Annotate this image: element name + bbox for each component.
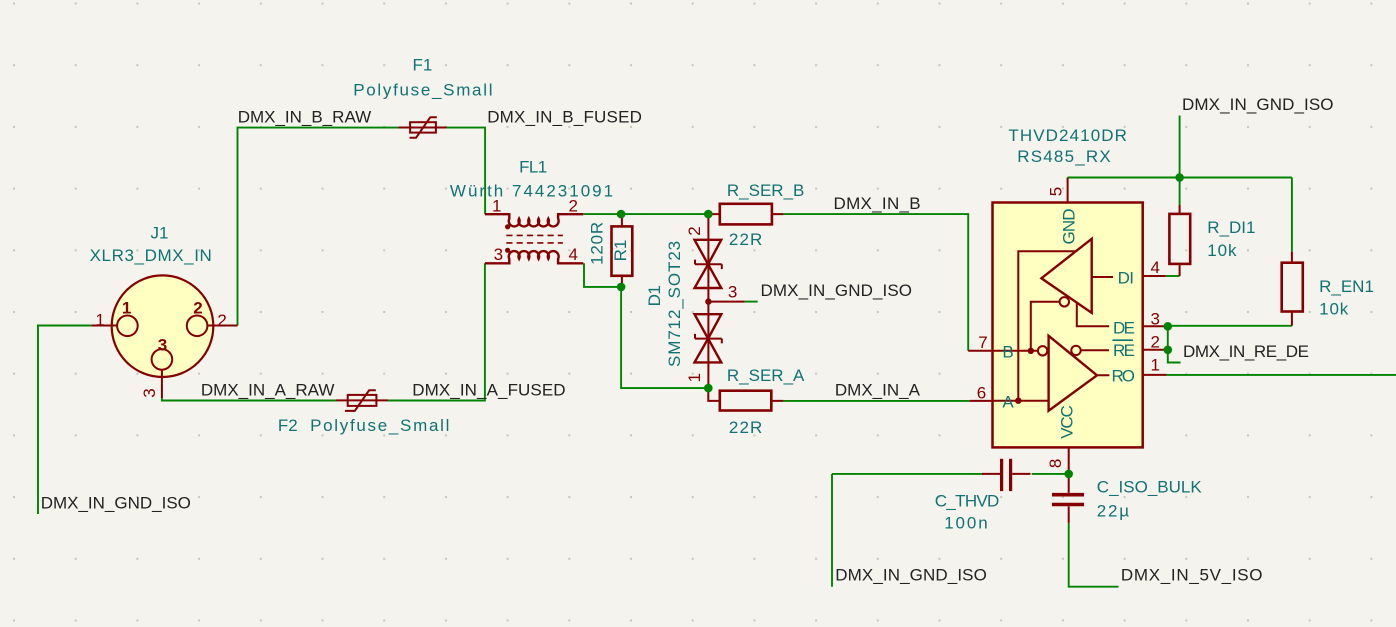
svg-text:5: 5 — [1046, 187, 1065, 196]
svg-text:10k: 10k — [1319, 300, 1349, 319]
svg-text:4: 4 — [569, 245, 578, 264]
svg-text:1: 1 — [95, 311, 104, 330]
IC U1 THVD2410DR RS485 transceiver — [993, 203, 1143, 448]
svg-text:2: 2 — [1151, 332, 1160, 351]
wire riser to DMX_IN_GND_ISO top label — [1179, 116, 1181, 178]
fuse F2 Polyfuse_Small — [336, 390, 388, 411]
svg-text:DMX_IN_GND_ISO: DMX_IN_GND_ISO — [1182, 95, 1334, 114]
svg-text:F1: F1 — [412, 56, 432, 75]
U1 pin 3 stub — [1143, 325, 1168, 327]
junction at R1 bottom — [617, 283, 626, 292]
wire junction to R_DI1 top — [1179, 178, 1181, 206]
resistor R_SER_B — [708, 204, 784, 225]
svg-text:100n: 100n — [944, 514, 989, 533]
svg-text:3: 3 — [140, 388, 159, 397]
svg-text:R1: R1 — [611, 240, 630, 262]
svg-text:B: B — [1002, 342, 1013, 361]
svg-text:F2: F2 — [278, 416, 298, 435]
wire D1 tap stub to DMX_IN_GND_ISO label — [745, 301, 758, 303]
svg-text:2: 2 — [193, 299, 202, 318]
svg-text:R_DI1: R_DI1 — [1207, 218, 1255, 237]
TVS diode D1 SM712_SOT23 — [695, 214, 745, 388]
junction RE pin — [1164, 346, 1173, 355]
svg-text:2: 2 — [217, 311, 226, 330]
wire rail to R_EN1 top — [1291, 178, 1293, 252]
svg-text:FL1: FL1 — [519, 158, 547, 177]
wire DMX_IN_B_RAW (J1 pin2 up and to fuse F1) — [238, 128, 400, 326]
U1 pin 7 stub — [968, 350, 992, 352]
svg-text:R_SER_A: R_SER_A — [727, 366, 805, 385]
svg-text:C_ISO_BULK: C_ISO_BULK — [1097, 478, 1203, 497]
junction GND rail / riser — [1175, 173, 1184, 182]
svg-text:DMX_IN_RE_DE: DMX_IN_RE_DE — [1183, 342, 1309, 361]
svg-text:GND: GND — [1059, 209, 1078, 245]
capacitor C_ISO_BULK — [1052, 474, 1084, 523]
wire net DMX_IN_GND_ISO left (J1 pin1 to label) — [38, 326, 91, 515]
svg-text:8: 8 — [1046, 459, 1065, 468]
svg-text:A: A — [1002, 392, 1014, 411]
capacitor C_THVD — [982, 459, 1031, 491]
svg-text:DMX_IN_A: DMX_IN_A — [835, 381, 921, 400]
svg-text:22µ: 22µ — [1097, 502, 1131, 521]
svg-text:3: 3 — [158, 335, 167, 354]
svg-text:3: 3 — [728, 282, 737, 301]
svg-text:10k: 10k — [1207, 241, 1237, 260]
common-mode choke FL1 — [485, 214, 583, 263]
wire DMX_IN_A (R_SER_A to U1 pin6 A) — [783, 400, 969, 402]
svg-text:3: 3 — [1151, 309, 1160, 328]
connector J1 XLR3_DMX_IN — [91, 275, 237, 398]
resistor R_DI1 — [1169, 205, 1190, 276]
U1 pin 4 stub — [1143, 275, 1166, 277]
svg-text:1: 1 — [122, 299, 131, 318]
wire DMX_IN_A_FUSED (F2 to FL1 pin3) — [388, 263, 485, 400]
svg-text:DMX_IN_5V_ISO: DMX_IN_5V_ISO — [1121, 565, 1263, 584]
U1 pin 2 stub — [1143, 349, 1168, 351]
svg-text:1: 1 — [1151, 355, 1160, 374]
junction at D1 bottom / R_SER_A — [704, 384, 713, 393]
svg-text:VCC: VCC — [1057, 405, 1076, 438]
fuse F1 Polyfuse_Small — [399, 117, 447, 138]
wire DMX_IN_RO from U1 pin1 to right edge — [1167, 374, 1396, 376]
resistor R_EN1 — [1282, 252, 1303, 326]
svg-text:XLR3_DMX_IN: XLR3_DMX_IN — [90, 246, 213, 265]
wire R1 bottom down to R_SER_A junction — [621, 287, 708, 388]
svg-text:R_EN1: R_EN1 — [1319, 277, 1374, 296]
junction at D1 top — [704, 210, 713, 219]
svg-text:22R: 22R — [729, 418, 764, 437]
resistor R_SER_A — [708, 388, 783, 410]
svg-text:4: 4 — [1151, 258, 1160, 277]
wire FL1 pin4 to R1 bottom — [584, 263, 621, 287]
svg-text:7: 7 — [978, 333, 987, 352]
svg-text:DMX_IN_GND_ISO: DMX_IN_GND_ISO — [835, 565, 987, 584]
svg-text:SM712_SOT23: SM712_SOT23 — [665, 240, 684, 367]
wire DMX_IN_A_RAW (J1 pin3 to fuse F2) — [162, 398, 337, 401]
svg-text:6: 6 — [977, 384, 986, 403]
svg-text:DMX_IN_GND_ISO: DMX_IN_GND_ISO — [761, 281, 913, 300]
svg-text:Würth 744231091: Würth 744231091 — [450, 182, 615, 201]
svg-text:2: 2 — [685, 226, 704, 235]
wire DE-RE link to DMX_IN_RE_DE label — [1168, 326, 1181, 363]
svg-text:RO: RO — [1112, 366, 1135, 385]
svg-text:2: 2 — [569, 197, 578, 216]
resistor R1 — [612, 214, 633, 287]
U1 pin 5 stub — [1067, 178, 1069, 203]
junction at R1 top — [617, 210, 626, 219]
svg-text:3: 3 — [494, 245, 503, 264]
svg-text:DI: DI — [1118, 269, 1134, 288]
wire C_ISO_BULK bottom to DMX_IN_5V_ISO label — [1069, 523, 1119, 587]
svg-text:120R: 120R — [587, 221, 606, 265]
wire FL1 pin2 to R1/D1/R_SER_B junctions — [583, 213, 708, 215]
wire DMX_IN_B (R_SER_B to U1 pin7 B) — [783, 214, 968, 351]
svg-text:Polyfuse_Small: Polyfuse_Small — [353, 81, 494, 100]
U1 pin 6 stub — [970, 400, 993, 402]
svg-text:1: 1 — [685, 373, 704, 382]
svg-text:DMX_IN_B_RAW: DMX_IN_B_RAW — [238, 107, 372, 126]
svg-text:DMX_IN_A_RAW: DMX_IN_A_RAW — [201, 381, 335, 400]
svg-text:DMX_IN_B_FUSED: DMX_IN_B_FUSED — [487, 107, 642, 126]
junction U1 pin8 / capacitors — [1064, 470, 1073, 479]
svg-text:C_THVD: C_THVD — [935, 492, 999, 511]
svg-text:J1: J1 — [151, 224, 169, 243]
wire R_DI1 bottom to U1 pin4 — [1166, 275, 1180, 277]
svg-text:DMX_IN_GND_ISO: DMX_IN_GND_ISO — [41, 494, 191, 513]
svg-text:R_SER_B: R_SER_B — [727, 181, 804, 200]
wire DMX_IN_B_FUSED (F1 to FL1 pin1) — [446, 128, 485, 215]
wire C_THVD left to DMX_IN_GND_ISO bottom label — [832, 474, 983, 587]
U1 pin 1 stub — [1143, 374, 1167, 376]
svg-text:1: 1 — [492, 197, 501, 216]
svg-text:22R: 22R — [729, 230, 764, 249]
svg-text:D1: D1 — [645, 286, 664, 307]
svg-text:RS485_RX: RS485_RX — [1017, 147, 1112, 166]
U1 pin 8 stub — [1068, 447, 1070, 473]
wire U1 pin5 GND rail to top right — [1068, 177, 1292, 179]
junction DE pin — [1164, 322, 1173, 331]
svg-text:DE: DE — [1113, 318, 1135, 337]
svg-text:DMX_IN_A_FUSED: DMX_IN_A_FUSED — [412, 381, 566, 400]
wire R_EN1 bottom to U1 pin3 DE — [1168, 325, 1292, 327]
wire C_THVD right to pin8 junction — [1032, 472, 1069, 474]
svg-text:DMX_IN_B: DMX_IN_B — [834, 194, 921, 213]
svg-text:THVD2410DR: THVD2410DR — [1008, 126, 1128, 145]
svg-text:RE: RE — [1113, 341, 1135, 360]
svg-text:Polyfuse_Small: Polyfuse_Small — [310, 416, 451, 435]
